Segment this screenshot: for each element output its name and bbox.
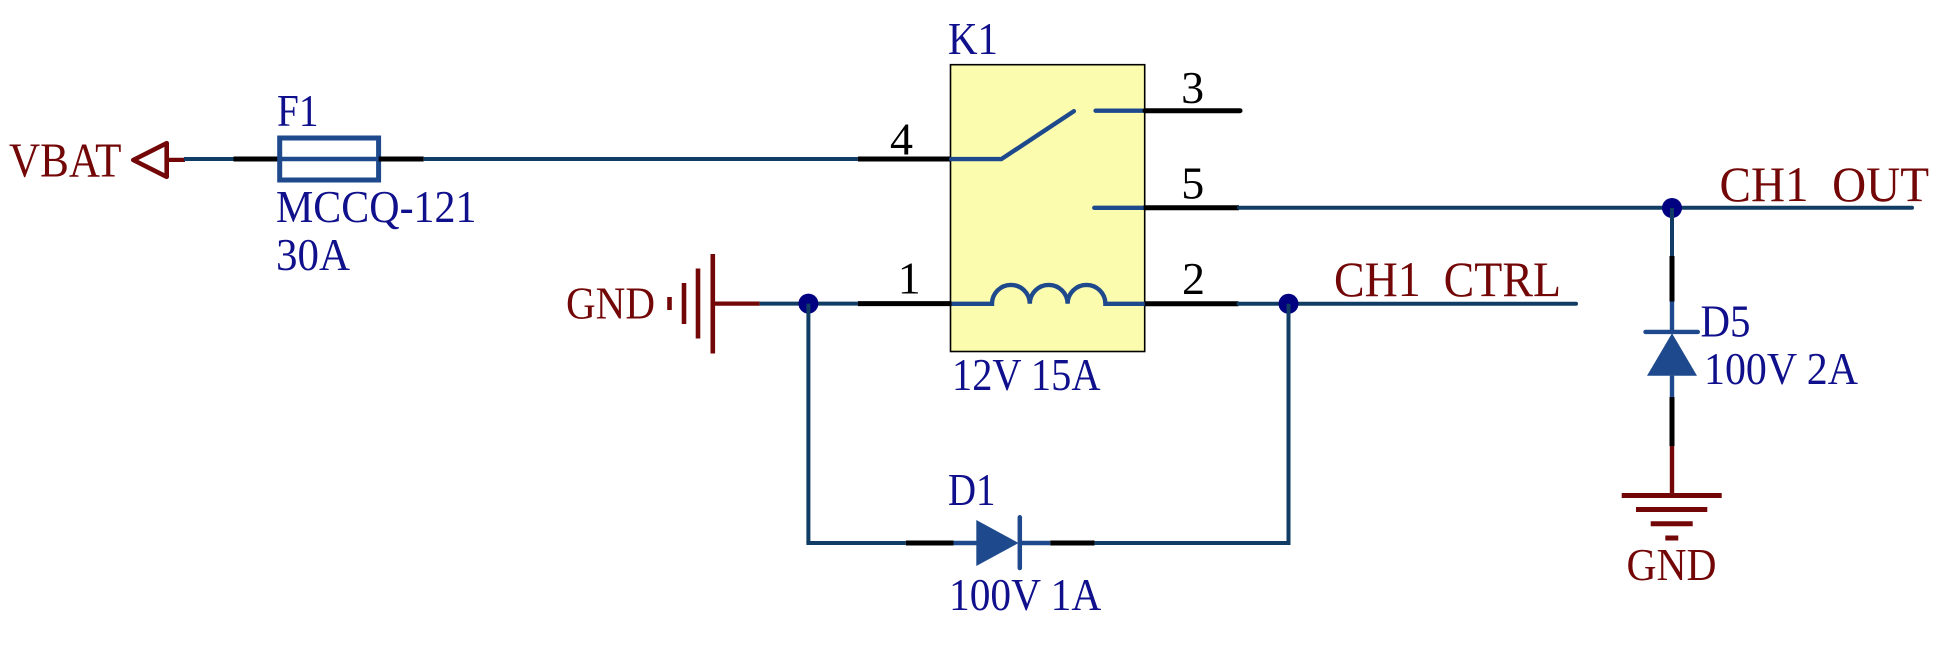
pin K1.2 — [1145, 301, 1239, 306]
D1 cathode stub — [1020, 541, 1050, 545]
svg-text:4: 4 — [890, 113, 913, 164]
fuse F1 body — [280, 138, 379, 180]
svg-text:VBAT: VBAT — [9, 133, 122, 188]
ground symbol right bar 2 — [1636, 507, 1707, 512]
diode D5 cathode bar — [1646, 330, 1698, 334]
svg-text:CH1 CTRL: CH1 CTRL — [1334, 251, 1561, 307]
pin F1.1 — [234, 157, 281, 162]
svg-text:100V 2A: 100V 2A — [1704, 343, 1858, 394]
port stub — [167, 158, 185, 162]
ground symbol right bar 3 — [1651, 521, 1693, 526]
pin F1.2 — [379, 157, 424, 162]
ground symbol right bar 1 — [1622, 493, 1722, 498]
wire right loop vertical — [1287, 304, 1291, 545]
junction node CH1 OUT — [1662, 198, 1682, 218]
svg-text:F1: F1 — [277, 85, 319, 136]
port symbol VBAT arrow — [133, 143, 166, 177]
ground symbol left bar 2 — [682, 283, 687, 324]
pin D1.anode — [906, 541, 954, 546]
svg-text:D5: D5 — [1701, 296, 1751, 347]
diode D1 cathode bar — [1018, 517, 1023, 568]
svg-text:30A: 30A — [276, 229, 350, 280]
relay coil — [951, 285, 1144, 304]
ground symbol left bar 1 — [667, 297, 672, 310]
fuse F1 mid line — [281, 157, 377, 161]
pin K1.3 — [1145, 108, 1240, 113]
svg-text:CH1 OUT: CH1 OUT — [1720, 156, 1930, 212]
pin D1.cathode — [1050, 541, 1094, 546]
ground symbol left bar 3 — [696, 269, 701, 339]
svg-text:12V 15A: 12V 15A — [952, 349, 1101, 400]
relay contact stub pin3 — [1096, 108, 1146, 112]
wire F1 to K1 pin4 — [424, 157, 858, 161]
wire K1 pin2 to CH1 CTRL — [1239, 302, 1577, 306]
pin K1.5 — [1144, 205, 1239, 210]
pin K1.4 — [858, 157, 952, 162]
svg-text:GND: GND — [566, 278, 655, 329]
pin D5.anode — [1670, 397, 1675, 446]
svg-text:MCCQ-121: MCCQ-121 — [276, 181, 477, 232]
svg-text:100V 1A: 100V 1A — [949, 569, 1101, 620]
relay K1 body — [951, 65, 1145, 352]
svg-text:2: 2 — [1182, 253, 1205, 304]
wire left loop vertical — [806, 304, 810, 543]
pin D5.cathode — [1670, 256, 1675, 302]
ground symbol right bar 4 — [1665, 536, 1678, 541]
D5 cathode stub — [1670, 302, 1674, 333]
diode D1 triangle — [976, 520, 1018, 566]
ground symbol left stem — [713, 302, 760, 306]
wire loop bottom right — [1095, 541, 1291, 545]
svg-text:D1: D1 — [948, 464, 996, 515]
ground symbol right stem — [1670, 446, 1674, 495]
wire GND to junction — [760, 302, 809, 306]
relay switch arm — [951, 111, 1074, 159]
svg-text:3: 3 — [1181, 62, 1204, 113]
svg-text:K1: K1 — [948, 13, 998, 64]
relay contact stub pin5 — [1094, 206, 1143, 210]
wire VBAT to F1 — [184, 157, 234, 161]
wire junction to K1 pin1 — [808, 302, 858, 306]
wire loop bottom left — [806, 541, 905, 545]
junction node at pin2 — [1279, 294, 1299, 314]
svg-text:GND: GND — [1627, 539, 1717, 590]
svg-text:5: 5 — [1181, 158, 1204, 209]
diode D5 triangle — [1647, 333, 1697, 376]
D5 anode stub — [1670, 376, 1674, 397]
pin K1.1 — [858, 301, 952, 306]
ground symbol left bar 4 — [710, 254, 715, 354]
wire K1 pin5 to CH1 OUT — [1239, 206, 1912, 210]
svg-text:1: 1 — [898, 252, 921, 303]
wire junction to D5 — [1670, 208, 1674, 256]
D1 anode stub — [954, 541, 978, 545]
junction node at pin1 — [798, 294, 818, 314]
